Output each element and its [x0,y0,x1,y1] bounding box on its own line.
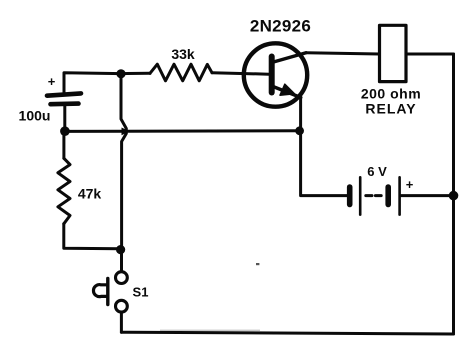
svg-text:47k: 47k [78,186,102,202]
wire relay to right rail [406,53,454,56]
transistor Q1 2N2926 [244,43,307,106]
wire switch to bottom rail [120,312,123,332]
scan smudge on bottom rail [160,330,260,331]
wire node A to R1 [121,72,150,75]
wire R1 to base of Q1 [212,73,269,75]
wire battery plus to right rail [401,194,454,197]
battery B1 long plate 2 [398,177,401,214]
svg-text:100u: 100u [19,108,51,124]
wire node A down with crossover kink [121,74,126,250]
svg-text:+: + [406,177,414,192]
wire cap top to node A [64,73,121,93]
svg-text:+: + [48,74,56,89]
capacitor C1 100u bottom plate [51,101,79,106]
switch S1 bottom contact [116,300,128,312]
relay K1 200 ohm [380,25,407,81]
node A junction dot [116,69,125,78]
node B junction dot [60,126,70,136]
switch S1 actuator loop [93,285,107,297]
wire right rail [452,54,455,334]
stray speck [256,263,259,265]
wire cap bottom lead [63,106,66,131]
svg-text:6 V: 6 V [367,164,387,179]
wire node C to switch [120,250,123,272]
svg-text:S1: S1 [133,285,149,300]
battery dashed link [366,194,381,197]
switch S1 actuator bar [106,279,109,305]
wire emitter down to battery row [301,98,347,196]
capacitor C1 100u top plate [47,93,81,95]
crossover ink blob [122,128,130,136]
switch S1 top contact [116,272,128,284]
svg-text:200 ohm: 200 ohm [361,86,421,102]
wire collector to relay [306,53,380,54]
node C junction dot [116,245,125,254]
wire bottom rail [121,332,453,334]
wire node B mid horizontal [65,129,300,133]
node battery-right junction dot [449,191,459,201]
battery B1 long plate 1 [359,177,362,214]
battery B1 short plate 2 [385,187,391,205]
resistor R2 47k [58,158,70,224]
node emitter junction dot [295,126,304,135]
wire 47k bottom lead to node C [64,224,121,249]
svg-text:RELAY: RELAY [365,101,416,117]
svg-text:2N2926: 2N2926 [250,17,311,36]
battery B1 short plate 1 [347,187,353,205]
svg-text:33k: 33k [171,46,195,62]
resistor R1 33k [150,64,212,81]
wire 47k top lead [62,131,65,158]
